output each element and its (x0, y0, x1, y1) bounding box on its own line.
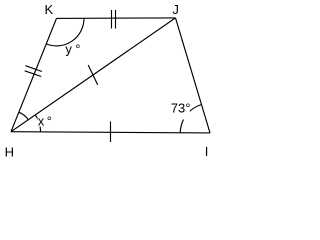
wire side HI (bottom edge) (11, 132, 210, 133)
svg-text:°: ° (47, 114, 52, 129)
wire diagonal HJ (11, 18, 176, 132)
tick marks (double) on side KJ (112, 10, 116, 29)
wire side JI (right edge) (176, 18, 211, 133)
svg-text:x: x (38, 114, 45, 129)
angle arc x at vertex H between diagonal and HI (35, 115, 40, 132)
angle arc 73 at vertex I (180, 105, 201, 133)
tick marks (double) on side KH (25, 66, 42, 77)
svg-text:J: J (172, 2, 179, 17)
white mask behind x label (38, 115, 53, 127)
svg-text:K: K (45, 2, 54, 17)
tick mark (single) on side HI (110, 122, 112, 143)
wire side KJ (top edge) (57, 17, 176, 20)
angle arc at vertex H between KH and diagonal (19, 112, 29, 120)
svg-text:°: ° (75, 41, 80, 56)
tick mark (single) on diagonal HJ (88, 65, 98, 85)
svg-text:I: I (205, 144, 209, 159)
svg-text:H: H (5, 145, 14, 160)
svg-text:73°: 73° (171, 100, 191, 115)
svg-text:y: y (65, 41, 72, 56)
angle arc y at vertex K (46, 18, 84, 46)
wire side KH (left edge) (11, 18, 57, 131)
white mask behind 73 label (171, 102, 190, 120)
